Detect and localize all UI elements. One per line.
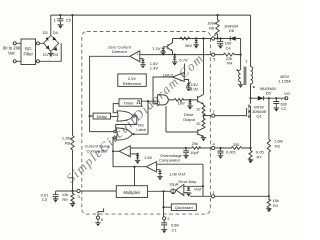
wire ZCD output to logic <box>90 56 130 131</box>
svg-text:Reference: Reference <box>123 81 142 86</box>
svg-text:3: 3 <box>77 194 80 199</box>
capacitor C3 0.01 <box>41 191 73 203</box>
pin 5 <box>212 53 216 61</box>
svg-text:Timer: Timer <box>124 100 135 105</box>
resistor 330 sense <box>221 142 251 149</box>
svg-text:R9: R9 <box>62 197 68 202</box>
resistor R1 10k <box>266 196 279 212</box>
quickstart block <box>164 204 197 211</box>
svg-text:1.5V: 1.5V <box>144 155 153 160</box>
zener 6.7V <box>172 55 188 66</box>
IC dashed border <box>82 32 211 215</box>
svg-text:R2: R2 <box>275 143 281 148</box>
wire ZCD input from pin5 <box>140 54 212 56</box>
svg-text:−: − <box>137 58 139 62</box>
svg-text:Vref: Vref <box>194 187 202 192</box>
wire top rail <box>51 14 251 16</box>
capacitor C2 330 output <box>273 97 287 112</box>
node drain <box>249 97 251 99</box>
pin 1 <box>212 190 216 198</box>
wire divider drop <box>72 15 74 135</box>
wire latch output to AND <box>132 101 157 134</box>
wire latch cross-coupling <box>116 116 137 129</box>
svg-text:D5: D5 <box>266 91 272 96</box>
wire OV output <box>113 166 146 168</box>
zener 1.5V clamp <box>135 153 153 164</box>
wire bridge to top rail <box>50 15 52 35</box>
svg-text:1: 1 <box>212 190 215 195</box>
wire to pin 7 <box>204 115 212 117</box>
svg-text:1.2V: 1.2V <box>152 46 161 51</box>
svg-text:Detector: Detector <box>112 49 128 54</box>
svg-text:C1: C1 <box>172 228 178 233</box>
svg-text:C2: C2 <box>281 106 287 111</box>
node drive out <box>202 115 204 117</box>
resistor R2 1.6M <box>267 98 283 196</box>
resistor vcc series <box>180 37 190 40</box>
pin 3 <box>73 189 81 198</box>
gate NOR latch <box>114 128 133 140</box>
svg-text:R6: R6 <box>209 26 215 31</box>
svg-text:Latch: Latch <box>136 127 146 132</box>
capacitor 10pF <box>183 147 199 159</box>
ground at bridge <box>48 51 54 57</box>
svg-text:D3: D3 <box>53 52 59 57</box>
svg-text:6: 6 <box>101 217 104 222</box>
svg-text:Vac: Vac <box>8 50 15 55</box>
svg-text:D4: D4 <box>53 30 59 35</box>
pin 2 <box>163 216 171 221</box>
svg-text:5: 5 <box>213 56 216 61</box>
svg-text:+: + <box>181 192 183 196</box>
output terminal VO <box>278 74 291 100</box>
wire CS plus input <box>130 153 137 155</box>
transistor driver upper <box>198 95 204 106</box>
wire multiplier output <box>134 167 136 186</box>
wire error amp minus to feedback <box>184 185 203 187</box>
op-amp UVLO <box>153 64 185 104</box>
wire pin3 to multiplier <box>80 190 116 192</box>
wire delay to gate <box>111 116 118 118</box>
svg-text:C3: C3 <box>42 197 48 202</box>
wire CS minus input to pin4 <box>130 147 211 149</box>
svg-text:Delay: Delay <box>97 114 107 119</box>
zener 16V <box>178 99 193 110</box>
svg-text:Filter: Filter <box>24 52 34 57</box>
multiplier block <box>116 186 147 198</box>
node multiplier feed <box>133 166 135 168</box>
MOSFET Q1 MTW30N60E <box>215 105 267 119</box>
resistor 20k <box>192 141 201 149</box>
svg-text:R4: R4 <box>227 61 233 66</box>
svg-text:1.4V: 1.4V <box>150 66 159 71</box>
svg-text:6.7V: 6.7V <box>179 57 188 62</box>
wire multiplier to error amp <box>148 190 176 192</box>
svg-text:Error Amp: Error Amp <box>178 179 197 184</box>
svg-text:R1: R1 <box>273 203 279 208</box>
pin 7 <box>212 109 216 117</box>
zener 1.08Vref <box>157 170 186 181</box>
resistor R6 100k <box>207 14 219 39</box>
node source/sense <box>249 147 251 149</box>
svg-text:+: + <box>137 52 139 56</box>
svg-text:10μA: 10μA <box>169 182 179 187</box>
capacitor C4 100 <box>217 39 232 51</box>
resistor R4 22k <box>215 53 241 66</box>
gate AND driver <box>158 95 169 105</box>
svg-text:4: 4 <box>212 142 215 147</box>
pin 8 <box>212 32 217 40</box>
svg-text:Output: Output <box>183 117 196 122</box>
svg-text:Quickstart: Quickstart <box>175 205 194 210</box>
resistor 10 upper <box>196 105 205 115</box>
svg-text:1.125A: 1.125A <box>278 79 291 84</box>
zener 1.2V reference <box>152 46 168 55</box>
delay block <box>93 113 110 119</box>
timer block <box>119 99 141 106</box>
resistor R9 12k <box>62 191 75 207</box>
svg-text:D2: D2 <box>43 30 49 35</box>
svg-text:Comparator: Comparator <box>159 158 181 163</box>
node divider mid <box>268 195 270 197</box>
capacitor C1 0.68 <box>161 220 179 233</box>
pin 4 <box>212 142 221 150</box>
svg-text:−: − <box>181 186 183 190</box>
wire into delay <box>90 115 94 117</box>
svg-text:VO: VO <box>284 91 290 96</box>
svg-text:20k: 20k <box>192 141 198 146</box>
zener 1.6V/1.4V hysteresis <box>140 59 159 71</box>
diode D5 MUR460 <box>251 86 287 101</box>
op-amp overvoltage comparator <box>146 153 182 172</box>
wire Vcc to driver collector <box>202 37 204 94</box>
resistor R7 0.05 <box>248 148 265 163</box>
svg-text:R7: R7 <box>257 155 263 160</box>
svg-text:C4: C4 <box>226 45 232 50</box>
svg-text:Multiplier: Multiplier <box>124 190 141 195</box>
label drive output <box>183 112 196 122</box>
zener Vref <box>184 187 202 197</box>
svg-text:7: 7 <box>212 109 215 114</box>
wire Vcc internal rail <box>173 38 212 40</box>
svg-text:2: 2 <box>167 216 170 221</box>
svg-text:36V: 36V <box>185 43 192 48</box>
op-amp zero current detector <box>108 44 140 62</box>
wire D6 corner to aux node <box>240 39 242 69</box>
wire Vcc external <box>215 38 241 40</box>
svg-text:−: − <box>127 147 129 151</box>
RFI filter block <box>13 39 39 65</box>
transformer T <box>236 15 254 98</box>
wire RFI to bridge <box>39 43 61 61</box>
capacitor C5 <box>54 15 72 28</box>
gate OR latch-set <box>117 111 135 121</box>
wire pin1 to divider <box>215 195 269 197</box>
svg-text:10: 10 <box>196 107 200 111</box>
wire R8 to pin3 node <box>72 150 74 191</box>
resistor 10 lower <box>196 116 205 129</box>
resistor driver <box>174 99 184 102</box>
wire ZCD into latch <box>90 131 114 133</box>
op-amp current sense comparator <box>85 144 131 158</box>
svg-text:0.001: 0.001 <box>226 149 237 154</box>
current source 10uA <box>169 182 179 194</box>
svg-text:10pF: 10pF <box>190 150 200 155</box>
wire comp node to pin2 <box>163 191 165 217</box>
svg-text:8.0V: 8.0V <box>190 87 199 92</box>
node R2 tap <box>268 97 270 99</box>
node: input label <box>3 46 21 56</box>
node ZCD clamp <box>174 54 176 56</box>
svg-text:Q1: Q1 <box>256 114 262 119</box>
wire CS/OV to latch <box>112 138 115 167</box>
svg-text:10: 10 <box>196 122 200 126</box>
svg-text:330: 330 <box>233 142 240 147</box>
wire CS output <box>113 150 119 152</box>
op-amp error amp <box>176 179 197 196</box>
svg-text:+: + <box>127 153 129 157</box>
svg-text:1.08 Vref: 1.08 Vref <box>169 171 186 176</box>
resistor R8 1.3M <box>62 136 74 150</box>
capacitor 0.001 <box>218 147 237 159</box>
svg-text:C5: C5 <box>66 17 72 22</box>
node latch output <box>133 133 135 135</box>
node delay tap <box>89 115 91 117</box>
transistor vcc clamp <box>168 39 173 55</box>
svg-text:R8: R8 <box>65 141 71 146</box>
pin 6 ground <box>95 208 104 226</box>
svg-text:T: T <box>245 59 248 64</box>
zener 13V/8.0V <box>184 80 198 92</box>
node C5 tap <box>59 14 61 16</box>
svg-text:16V: 16V <box>178 101 185 106</box>
wire driver line <box>168 99 197 101</box>
transistor driver lower <box>166 106 206 141</box>
bridge rectifier D1-D4 <box>43 30 59 57</box>
wire drain-source line <box>250 84 252 148</box>
wire OV minus to feedback <box>157 164 212 196</box>
diode D6 1N4934 <box>224 24 239 41</box>
label RS latch <box>136 122 146 132</box>
svg-text:1: 1 <box>54 17 57 22</box>
zener 36V <box>185 37 199 48</box>
reference block 2.5V <box>118 74 147 87</box>
svg-text:D6: D6 <box>229 28 235 33</box>
node divider tap <box>71 14 73 16</box>
svg-text:Comparator: Comparator <box>86 148 108 153</box>
wire timer feedback <box>113 104 119 113</box>
